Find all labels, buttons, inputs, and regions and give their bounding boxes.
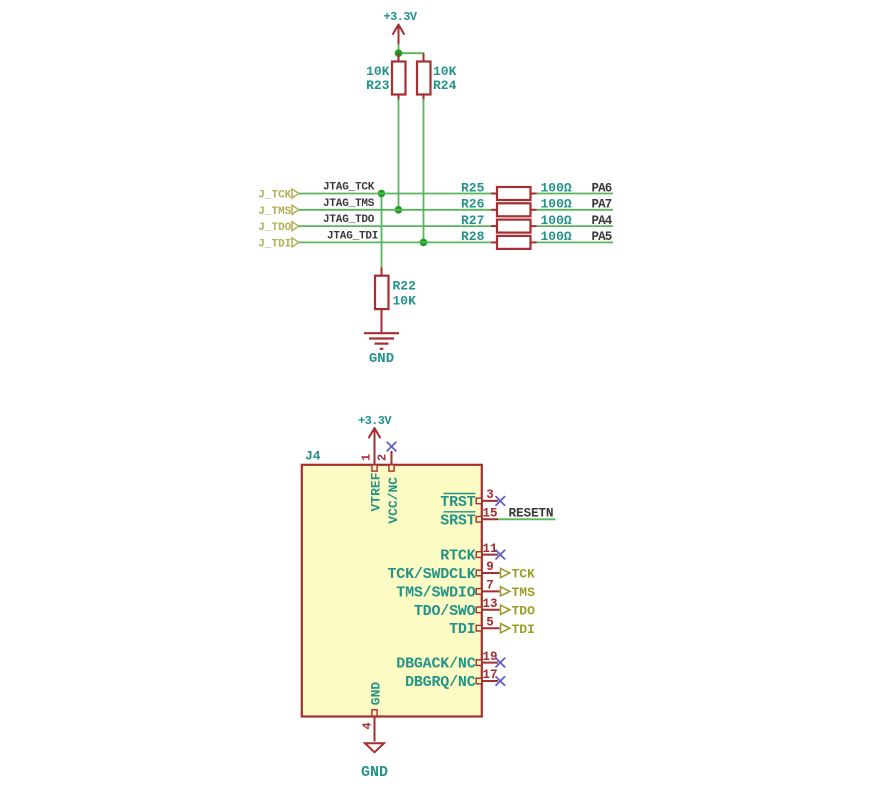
svg-text:R27: R27 — [461, 213, 484, 228]
svg-text:1: 1 — [359, 454, 373, 461]
resistor R23 — [366, 53, 405, 101]
svg-text:5: 5 — [486, 615, 494, 629]
hierarchical label TDI — [501, 622, 535, 637]
svg-text:J_TMS: J_TMS — [258, 206, 291, 218]
svg-text:10K: 10K — [433, 64, 457, 79]
svg-text:DBGACK/NC: DBGACK/NC — [396, 656, 475, 673]
wire from +3.3V to junction — [398, 44, 400, 53]
connector J4 body — [302, 449, 482, 717]
svg-text:TMS: TMS — [512, 585, 536, 600]
svg-text:SRST: SRST — [440, 512, 475, 529]
wire to PA6 — [537, 193, 614, 195]
svg-text:R22: R22 — [393, 279, 417, 294]
ground symbol GND (below R22) — [364, 333, 399, 367]
wire R23 to JTAG_TMS row — [398, 99, 400, 210]
svg-text:15: 15 — [482, 507, 497, 521]
svg-text:17: 17 — [482, 668, 497, 682]
power symbol +3.3V (top) — [383, 10, 417, 45]
wire RESETN — [498, 518, 556, 520]
svg-text:PA7: PA7 — [592, 198, 612, 212]
pin 17 DBGRQ/NC — [405, 668, 498, 691]
no-connect X pin 3 — [496, 496, 506, 506]
no-connect X pin 2 — [387, 442, 397, 452]
svg-text:PA6: PA6 — [592, 181, 612, 195]
svg-text:TRST: TRST — [440, 494, 475, 511]
svg-text:R26: R26 — [461, 197, 485, 212]
resistor R28 — [461, 229, 572, 249]
junction dot — [395, 49, 403, 57]
wire JTAG_TCK row down to R22 — [381, 194, 383, 268]
wire to PA5 — [537, 241, 614, 243]
svg-text:GND: GND — [369, 351, 394, 367]
svg-text:PA4: PA4 — [592, 214, 613, 228]
wire to PA4 — [537, 225, 614, 227]
svg-text:11: 11 — [482, 542, 497, 556]
pin 1 VTREF — [359, 428, 383, 512]
wire junction horizontal to R24 — [399, 53, 424, 61]
resistor R22 — [375, 268, 416, 334]
svg-text:PA5: PA5 — [592, 230, 612, 244]
svg-text:TDO: TDO — [512, 604, 536, 619]
hierarchical label J_TCK — [258, 189, 299, 202]
svg-text:TDI: TDI — [449, 621, 475, 638]
svg-text:TMS/SWDIO: TMS/SWDIO — [396, 584, 475, 601]
ground symbol GND (J4 pin 4) — [361, 743, 388, 781]
wire JTAG_TMS — [299, 209, 491, 211]
wire JTAG_TDI — [299, 241, 491, 243]
wire JTAG_TDO — [299, 225, 491, 227]
wire JTAG_TCK — [299, 193, 491, 195]
svg-text:TDI: TDI — [512, 622, 535, 637]
pin 11 RTCK — [440, 542, 498, 565]
no-connect X pin 19 — [496, 658, 506, 668]
junction dot JTAG_TMS — [395, 206, 403, 214]
svg-text:R24: R24 — [433, 78, 457, 93]
svg-text:J_TDO: J_TDO — [258, 222, 291, 234]
svg-text:J_TDI: J_TDI — [258, 238, 291, 250]
hierarchical label J_TMS — [258, 205, 299, 218]
resistor R25 — [461, 180, 572, 200]
svg-text:3: 3 — [486, 488, 494, 502]
resistor R26 — [461, 197, 572, 217]
pin 4 GND — [360, 682, 383, 742]
svg-text:J4: J4 — [305, 449, 321, 464]
no-connect X pin 11 — [496, 550, 506, 560]
svg-text:VCC/NC: VCC/NC — [386, 477, 401, 524]
no-connect X pin 17 — [496, 676, 506, 686]
svg-text:TCK: TCK — [512, 567, 536, 582]
svg-text:JTAG_TMS: JTAG_TMS — [323, 198, 375, 210]
svg-text:TDO/SWO: TDO/SWO — [414, 603, 476, 620]
hierarchical label TMS — [501, 585, 536, 600]
resistor R24 — [417, 53, 457, 101]
hierarchical label J_TDO — [258, 222, 299, 235]
hierarchical label TCK — [501, 567, 536, 582]
hierarchical label J_TDI — [258, 238, 299, 251]
svg-text:RTCK: RTCK — [440, 548, 475, 565]
svg-text:13: 13 — [482, 597, 497, 611]
svg-text:JTAG_TDO: JTAG_TDO — [323, 214, 375, 226]
pin 9 TCK/SWDCLK — [387, 560, 499, 583]
pin 2 VCC/NC — [375, 451, 401, 524]
svg-text:R23: R23 — [366, 78, 390, 93]
svg-text:+3.3V: +3.3V — [383, 10, 417, 24]
svg-text:10K: 10K — [366, 64, 390, 79]
svg-text:4: 4 — [360, 722, 374, 729]
svg-text:10K: 10K — [393, 294, 417, 309]
svg-text:2: 2 — [375, 454, 389, 461]
svg-text:VTREF: VTREF — [369, 472, 384, 511]
pin 13 TDO/SWO — [414, 597, 500, 620]
svg-text:TCK/SWDCLK: TCK/SWDCLK — [387, 566, 475, 583]
svg-text:R25: R25 — [461, 180, 485, 195]
pin 5 TDI — [449, 615, 499, 638]
svg-text:RESETN: RESETN — [509, 505, 554, 520]
svg-text:19: 19 — [482, 650, 497, 664]
svg-text:DBGRQ/NC: DBGRQ/NC — [405, 674, 476, 691]
wire to PA7 — [537, 209, 614, 211]
svg-text:R28: R28 — [461, 229, 485, 244]
wire R24 to JTAG_TDI row — [423, 99, 425, 242]
svg-text:GND: GND — [361, 764, 388, 781]
svg-text:JTAG_TDI: JTAG_TDI — [327, 230, 378, 242]
svg-text:J_TCK: J_TCK — [258, 190, 291, 202]
hierarchical label TDO — [501, 604, 536, 619]
svg-text:9: 9 — [486, 560, 494, 574]
pin 15 SRST — [440, 507, 498, 530]
svg-text:7: 7 — [486, 579, 494, 593]
resistor R27 — [461, 213, 572, 233]
pin 3 TRST — [440, 488, 498, 511]
pin 7 TMS/SWDIO — [396, 579, 499, 602]
svg-text:GND: GND — [369, 682, 384, 706]
power symbol +3.3V (J4 pin 1) — [358, 414, 392, 438]
junction dot JTAG_TCK — [378, 190, 386, 198]
svg-text:JTAG_TCK: JTAG_TCK — [323, 182, 375, 194]
svg-text:+3.3V: +3.3V — [358, 414, 392, 428]
pin 19 DBGACK/NC — [396, 650, 498, 673]
junction dot JTAG_TDI — [420, 239, 428, 247]
